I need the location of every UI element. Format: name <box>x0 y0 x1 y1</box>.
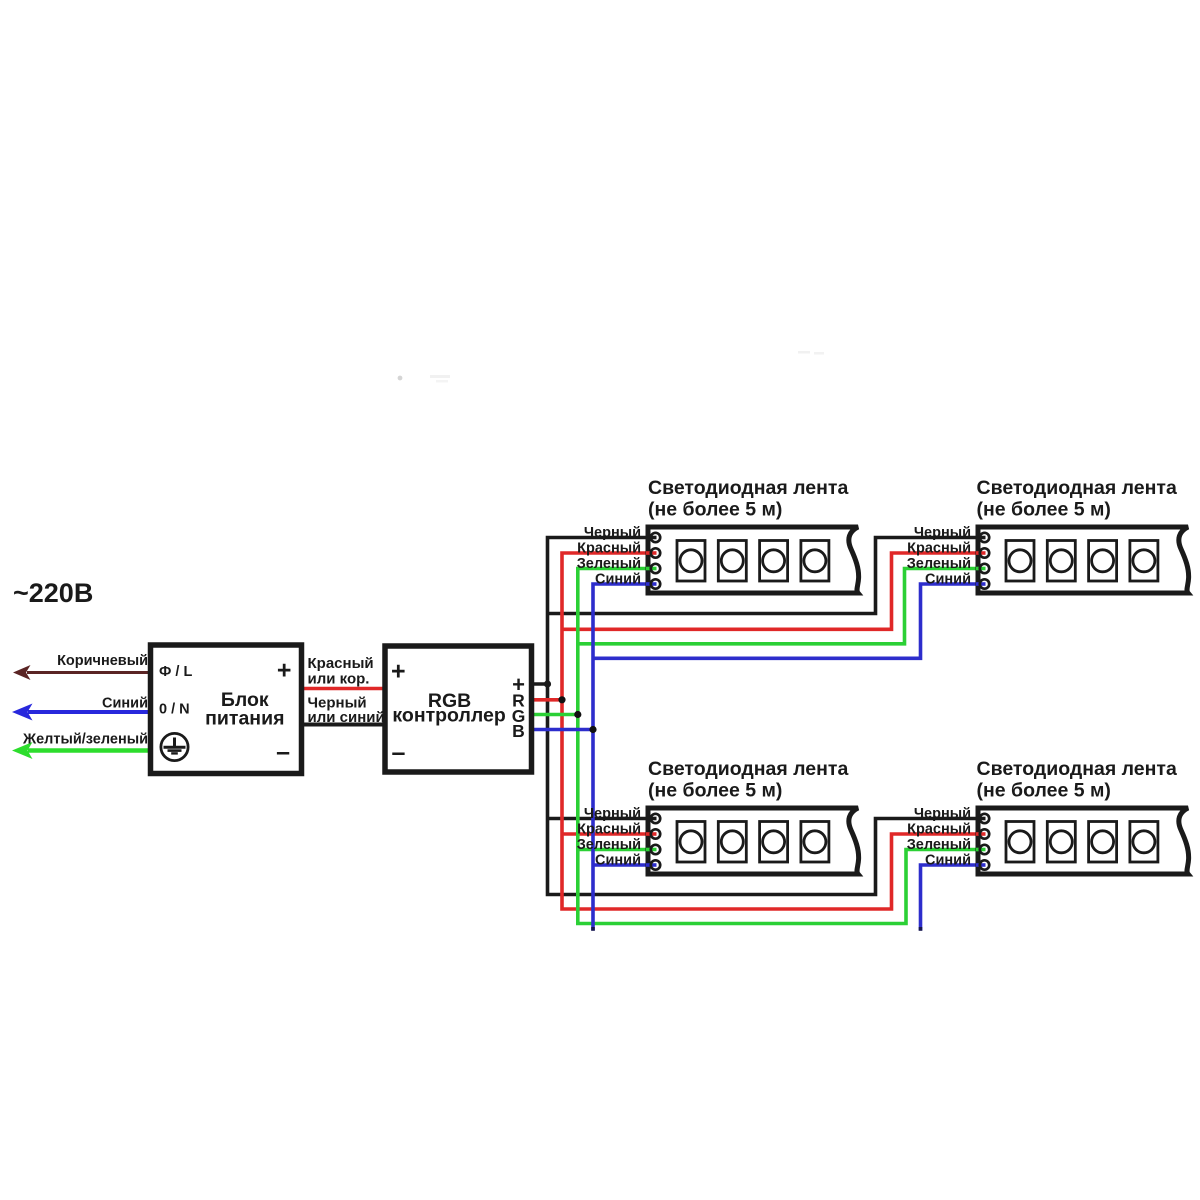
svg-text:Ф / L: Ф / L <box>159 664 192 680</box>
strip3 LED 3 <box>760 822 788 863</box>
strip3 LED 4 <box>801 822 829 863</box>
strip2 terminal pin 4 <box>980 579 989 588</box>
wire green stub into strip1 pin 3 <box>646 567 657 571</box>
wire black branch to strip2 <box>548 538 985 614</box>
svg-text:Светодиодная лента: Светодиодная лента <box>648 477 848 499</box>
strip4 LED 4 <box>1130 822 1158 863</box>
svg-text:или кор.: или кор. <box>308 671 370 688</box>
svg-text:(не более 5 м): (не более 5 м) <box>648 780 782 802</box>
svg-text:Красный: Красный <box>907 822 971 838</box>
wire green branch to strip3 <box>578 848 656 852</box>
svg-text:Синий: Синий <box>595 853 641 869</box>
wire red PSU plus to controller <box>301 687 385 691</box>
wire black stub into strip3 pin 1 <box>646 817 657 821</box>
wire black stub into strip1 pin 1 <box>646 536 657 540</box>
LED strip 2 body (top-right) <box>978 527 1189 593</box>
wire blue stub from strip4 <box>921 865 985 931</box>
LED strip 4 body (bottom-right) <box>978 808 1189 874</box>
svg-text:Коричневый: Коричневый <box>57 653 148 669</box>
strip4 terminal pin 3 <box>980 845 989 854</box>
svg-text:Красный: Красный <box>308 655 374 672</box>
wire blue stub into strip3 pin 4 <box>646 863 657 867</box>
svg-text:Красный: Красный <box>577 541 641 557</box>
svg-text:Красный: Красный <box>907 541 971 557</box>
strip2 LED 4 <box>1130 541 1158 582</box>
svg-text:0 / N: 0 / N <box>159 702 190 718</box>
strip2 terminal pin 1 <box>980 533 989 542</box>
wire black branch to strip3 <box>548 817 656 821</box>
svg-text:Зеленый: Зеленый <box>577 837 641 853</box>
wire black PSU minus to controller <box>301 723 385 727</box>
svg-text:Черный: Черный <box>584 525 641 541</box>
svg-text:Черный: Черный <box>584 806 641 822</box>
wire blue stub into strip4 pin 4 <box>976 863 986 867</box>
wire blue stub into strip1 pin 4 <box>646 582 657 586</box>
strip3 LED 2 <box>718 822 746 863</box>
strip4 terminal pin 1 <box>980 814 989 823</box>
power supply box U1 <box>151 645 302 774</box>
wire green stub into strip2 pin 3 <box>976 567 986 571</box>
svg-text:Синий: Синий <box>595 572 641 588</box>
strip1 LED 2 <box>718 541 746 582</box>
strip2 terminal pin 2 <box>980 548 989 557</box>
strip1 terminal pin 2 <box>651 548 660 557</box>
LED strip 1 body (top-left) <box>648 527 859 593</box>
svg-text:Желтый/зеленый: Желтый/зеленый <box>22 732 148 748</box>
strip1 terminal pin 3 <box>651 564 660 573</box>
strip4 terminal pin 2 <box>980 829 989 838</box>
junction dot red <box>558 696 565 703</box>
wire green stub into strip4 pin 3 <box>976 848 986 852</box>
wire blue mains N with arrow <box>12 704 151 721</box>
svg-text:Зеленый: Зеленый <box>577 556 641 572</box>
faint artifact smudge left <box>398 375 450 383</box>
svg-text:Светодиодная лента: Светодиодная лента <box>648 758 848 780</box>
junction dot black <box>544 680 551 687</box>
svg-text:питания: питания <box>205 708 284 730</box>
strip3 terminal pin 1 <box>651 814 660 823</box>
svg-text:Зеленый: Зеленый <box>907 556 971 572</box>
wire blue stub into strip2 pin 4 <box>976 582 986 586</box>
svg-text:Светодиодная лента: Светодиодная лента <box>977 758 1177 780</box>
PSU earth ground symbol <box>161 733 188 760</box>
wire black from controller plus output <box>531 682 548 686</box>
svg-text:Черный: Черный <box>914 806 971 822</box>
svg-text:B: B <box>512 721 525 741</box>
svg-text:–: – <box>276 738 290 766</box>
wire blue branch to strip3 <box>593 863 656 867</box>
junction dot green <box>574 711 581 718</box>
svg-text:Синий: Синий <box>925 853 971 869</box>
wire green-yellow earth with arrow <box>12 742 151 759</box>
wire blue net: strip1 feed + vertical bus stub <box>593 584 656 931</box>
svg-text:Черный: Черный <box>914 525 971 541</box>
wire red stub into strip2 pin 2 <box>976 551 986 555</box>
wire red net: strip1 feed + vertical bus + bottom run to strip4 <box>562 553 985 909</box>
strip2 LED 3 <box>1089 541 1117 582</box>
svg-text:(не более 5 м): (не более 5 м) <box>648 499 782 521</box>
wire red branch to strip2 <box>562 553 985 629</box>
strip1 LED 3 <box>760 541 788 582</box>
strip4 LED 1 <box>1006 822 1034 863</box>
svg-text:~220В: ~220В <box>13 578 93 608</box>
wire black stub into strip4 pin 1 <box>976 817 986 821</box>
RGB controller box U2 <box>385 646 532 772</box>
svg-text:Синий: Синий <box>102 696 148 712</box>
wire green net: strip1 feed + vertical bus + bottom run to strip4 <box>578 569 985 924</box>
faint artifact smudge right <box>798 351 824 355</box>
wire black net: strip1 feed + vertical bus + bottom run to strip4 <box>548 538 985 895</box>
svg-text:+: + <box>277 657 292 685</box>
wire green stub into strip3 pin 3 <box>646 848 657 852</box>
strip2 terminal pin 3 <box>980 564 989 573</box>
wire red stub into strip3 pin 2 <box>646 832 657 836</box>
svg-text:или синий: или синий <box>308 709 385 726</box>
strip3 terminal pin 2 <box>651 829 660 838</box>
svg-text:(не более 5 м): (не более 5 м) <box>977 780 1111 802</box>
svg-text:Зеленый: Зеленый <box>907 837 971 853</box>
wire brown mains L with arrow <box>13 665 151 680</box>
strip1 terminal pin 1 <box>651 533 660 542</box>
junction dot blue <box>589 726 596 733</box>
strip4 terminal pin 4 <box>980 860 989 869</box>
strip3 terminal pin 3 <box>651 845 660 854</box>
strip4 LED 2 <box>1047 822 1075 863</box>
wire blue from controller B output <box>531 728 593 732</box>
svg-text:Светодиодная лента: Светодиодная лента <box>977 477 1177 499</box>
strip2 LED 1 <box>1006 541 1034 582</box>
wire green from controller G output <box>531 713 578 717</box>
wire black stub into strip2 pin 1 <box>976 536 986 540</box>
svg-text:(не более 5 м): (не более 5 м) <box>977 499 1111 521</box>
svg-text:контроллер: контроллер <box>392 705 505 727</box>
strip3 terminal pin 4 <box>651 860 660 869</box>
svg-text:Синий: Синий <box>925 572 971 588</box>
svg-text:Красный: Красный <box>577 822 641 838</box>
strip4 LED 3 <box>1089 822 1117 863</box>
wire red from controller R output <box>531 698 562 702</box>
wire red branch to strip3 <box>562 832 656 836</box>
wire red stub into strip4 pin 2 <box>976 832 986 836</box>
LED strip 3 body (bottom-left) <box>648 808 859 874</box>
wire green branch to strip2 <box>578 569 985 644</box>
strip1 terminal pin 4 <box>651 579 660 588</box>
strip2 LED 2 <box>1047 541 1075 582</box>
strip3 LED 1 <box>677 822 705 863</box>
strip1 LED 1 <box>677 541 705 582</box>
svg-text:–: – <box>392 739 406 767</box>
wire red stub into strip1 pin 2 <box>646 551 657 555</box>
svg-text:+: + <box>391 658 406 686</box>
strip1 LED 4 <box>801 541 829 582</box>
wire blue branch to strip2 <box>593 584 985 658</box>
